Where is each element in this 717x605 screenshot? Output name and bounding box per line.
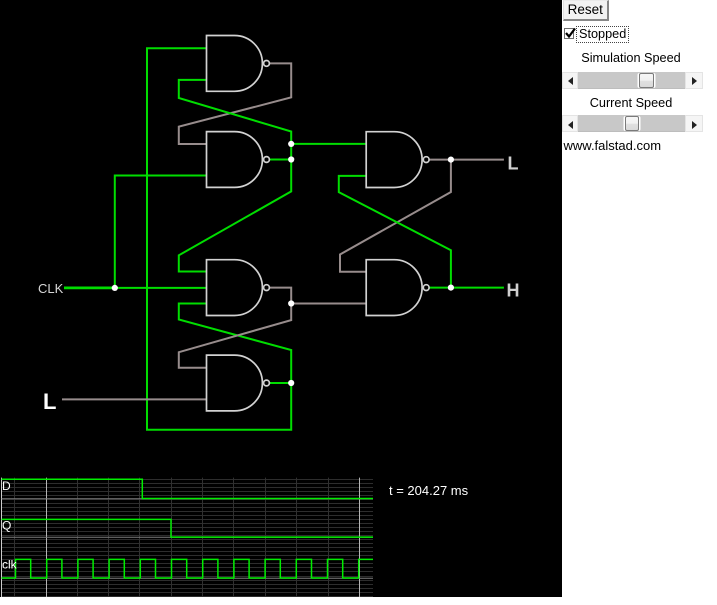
Stopped checkbox bbox=[564, 28, 575, 39]
wire U1 output to U2 input A (low) bbox=[179, 63, 291, 144]
wire L input to U4 input B (low) bbox=[62, 398, 207, 400]
wire U6 output to H terminal (high) bbox=[429, 287, 504, 289]
wire CLK input to U3 input B (high) bbox=[115, 287, 207, 289]
svg-text:L: L bbox=[43, 389, 56, 414]
scope horizontal gridlines bbox=[2, 480, 374, 597]
wire U3 output to U4 input A cross-coupling (low) bbox=[179, 304, 291, 368]
wire U5 output to U6 input A cross-coupling (low) bbox=[340, 160, 451, 272]
junction U2 output node bbox=[288, 156, 294, 162]
wire CLK input terminal stub (high) bbox=[64, 286, 115, 289]
Current Speed label bbox=[560, 96, 702, 110]
scope left edge line bbox=[1, 478, 3, 598]
scope trace clk bbox=[2, 559, 374, 578]
Simulation Speed label bbox=[560, 51, 702, 65]
Simulation Speed slider bbox=[562, 72, 703, 89]
scope trace Q bbox=[2, 519, 374, 537]
NAND gate U5 bbox=[366, 132, 429, 188]
NAND gate U2 bbox=[207, 132, 270, 188]
NAND gate U1 bbox=[207, 36, 270, 92]
Current Speed slider bbox=[562, 115, 703, 132]
svg-text:Q: Q bbox=[2, 519, 11, 533]
svg-text:H: H bbox=[507, 281, 520, 301]
NAND gate U3 bbox=[207, 260, 270, 316]
svg-text:CLK: CLK bbox=[38, 281, 64, 296]
Stopped label bbox=[576, 26, 629, 43]
NAND gate U6 bbox=[366, 260, 429, 316]
wire U3 output to U6 input B (low) bbox=[269, 288, 366, 304]
wire net Q-bar feedback: U4 output to U1 input A (high) bbox=[147, 48, 291, 430]
junction U4 output node bbox=[288, 380, 294, 386]
svg-text:clk: clk bbox=[2, 558, 18, 572]
junction U3 output node bbox=[288, 300, 294, 306]
circuit canvas bbox=[0, 0, 562, 597]
scope trace D bbox=[2, 479, 374, 498]
www.falstad.com link text bbox=[564, 138, 662, 153]
wire U2 output to U1 input B cross-coupling (high) bbox=[179, 80, 291, 144]
svg-text:D: D bbox=[2, 479, 11, 493]
scope bright vertical gridlines bbox=[47, 478, 360, 598]
wire CLK branch to U2 input B (high) bbox=[115, 176, 207, 288]
Reset button bbox=[563, 0, 610, 21]
wire U4 output to U3 input C cross-coupling (high) bbox=[179, 304, 291, 384]
NAND gate U4 bbox=[207, 355, 270, 411]
scope vertical gridlines bbox=[15, 478, 329, 598]
junction U2 output upper node bbox=[288, 141, 294, 147]
junction U6 output node bbox=[448, 285, 454, 291]
wire U2 output to U5 input A (high) bbox=[291, 143, 366, 145]
wire U2 output to U3 input A (high) bbox=[179, 160, 291, 272]
svg-text:L: L bbox=[508, 154, 519, 174]
wire U5 output to L terminal (low) bbox=[429, 159, 504, 161]
junction CLK node bbox=[112, 285, 118, 291]
junction U5 output node bbox=[448, 157, 454, 163]
scope zero lines bbox=[2, 499, 374, 579]
wire U6 output to U5 input B cross-coupling (high) bbox=[339, 176, 451, 288]
svg-text:t = 204.27 ms: t = 204.27 ms bbox=[389, 483, 469, 498]
wire U2 output lead (high) bbox=[269, 144, 291, 160]
